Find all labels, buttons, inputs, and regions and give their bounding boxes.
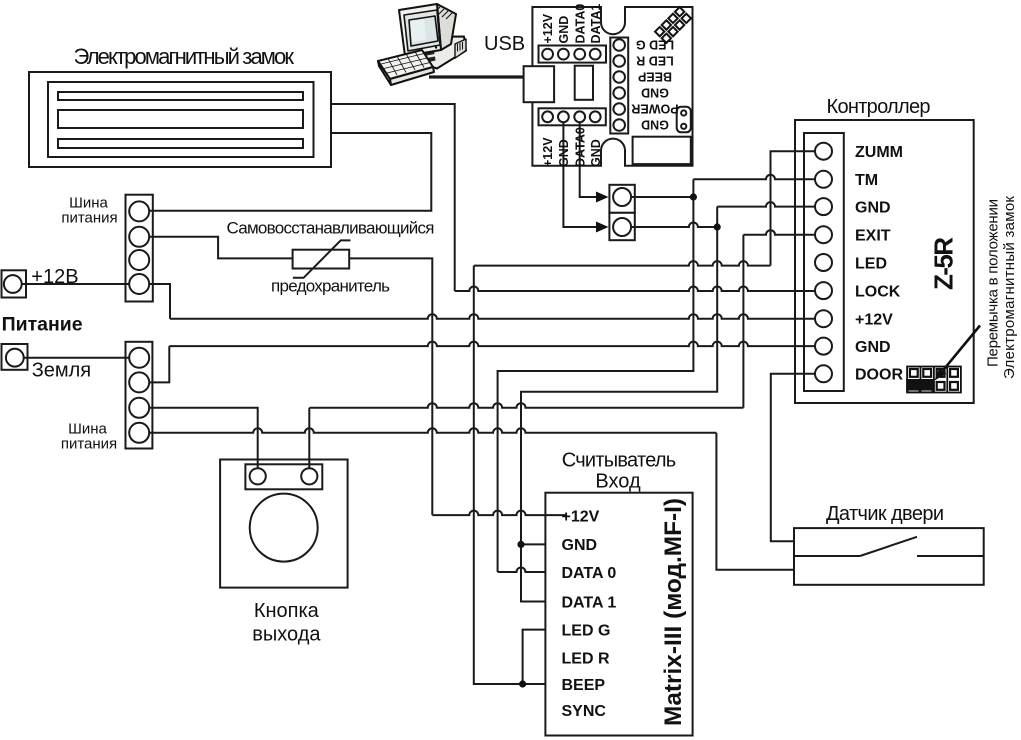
svg-text:Контроллер: Контроллер — [827, 96, 931, 118]
wire: +12V bus to controller +12V — [139, 284, 815, 319]
wire: keyboard to USB plug — [429, 75, 524, 78]
wire: exit button right to controller EXIT — [309, 230, 815, 476]
controller box Z-5R — [795, 120, 974, 403]
wire: ground terminal to bus 2 pin 1 — [16, 357, 140, 359]
fuse body — [293, 240, 351, 277]
svg-text:+12V: +12V — [855, 312, 893, 329]
svg-text:+12В: +12В — [31, 266, 78, 288]
USB connector on board — [575, 66, 593, 100]
DOOR mode jumper block — [906, 367, 961, 393]
svg-text:Считыватель: Считыватель — [562, 450, 676, 472]
exit button actuator — [250, 494, 318, 562]
svg-text:LED G: LED G — [636, 37, 674, 51]
exit button terminals — [250, 468, 318, 484]
svg-text:GND: GND — [557, 139, 571, 167]
svg-text:EXIT: EXIT — [855, 228, 891, 245]
bus 1 pins — [129, 201, 149, 294]
svg-text:предохранитель: предохранитель — [271, 276, 390, 295]
svg-text:DATA 1: DATA 1 — [562, 594, 617, 611]
svg-text:+12V: +12V — [562, 508, 600, 525]
ground terminal (Zemlya) — [2, 344, 28, 370]
controller terminal pins — [815, 143, 832, 383]
computer with monitor and keyboard — [378, 4, 466, 85]
svg-text:LED R: LED R — [636, 53, 674, 67]
svg-text:Электромагнитный замок: Электромагнитный замок — [74, 44, 295, 69]
svg-text:DATA0: DATA0 — [573, 4, 587, 44]
buzzer connector block (bottom) — [609, 213, 634, 240]
+12V terminal pin — [4, 275, 22, 293]
adapter bottom pads — [542, 111, 600, 122]
board top pad strip — [539, 46, 607, 63]
adapter column pad labels (upside down) — [631, 37, 678, 131]
adapter top pad labels — [541, 4, 603, 44]
wire: buzzer block bottom to GND net — [622, 223, 717, 227]
svg-text:BEEP: BEEP — [562, 677, 606, 694]
power bus block 1 — [126, 195, 153, 302]
electromagnetic lock body — [29, 72, 331, 167]
svg-text:LED G: LED G — [562, 622, 611, 639]
wire: controller DOOR to door sensor — [771, 374, 815, 542]
svg-text:GND: GND — [562, 537, 598, 554]
svg-text:POWER: POWER — [631, 101, 678, 115]
wire: lock bottom to power bus 1 pin 1 — [139, 133, 431, 211]
junction: reader GND tap — [517, 541, 524, 548]
wire: controller TM to reader DATA0 — [498, 175, 815, 572]
wire: GND bus to controller GND — [139, 342, 815, 383]
wire: adapter GND pad to buzzer block (arrow) — [563, 117, 608, 233]
svg-text:Перемычка в положении: Перемычка в положении — [985, 199, 1002, 367]
junction: TM / buzzer top — [690, 193, 697, 200]
svg-text:LOCK: LOCK — [855, 283, 901, 300]
adapter top pads — [542, 49, 600, 60]
reader pin labels — [562, 508, 617, 720]
svg-text:Электромагнитный замок: Электромагнитный замок — [1001, 196, 1018, 379]
svg-text:Matrix-III (мод.MF-I): Matrix-III (мод.MF-I) — [660, 498, 687, 726]
svg-text:DATA1: DATA1 — [589, 4, 603, 44]
svg-text:GND: GND — [855, 199, 891, 216]
svg-text:LED: LED — [855, 255, 887, 272]
ground terminal pin — [6, 349, 24, 367]
wire: buzzer block top to TM net — [622, 196, 693, 198]
svg-text:+12V: +12V — [541, 137, 555, 167]
svg-text:Z-5R: Z-5R — [929, 237, 959, 290]
svg-text:Питание: Питание — [2, 314, 83, 336]
wire: controller ZUMM to reader BEEP/LED G — [474, 151, 815, 684]
svg-text:GND: GND — [641, 117, 669, 131]
exit button body — [220, 460, 348, 588]
board bottom pad strip — [539, 108, 606, 125]
power bus block 2 — [126, 342, 153, 449]
wire: bus 1 pin 2 to fuse — [139, 237, 292, 259]
svg-text:GND: GND — [589, 139, 603, 167]
door sensor box — [794, 528, 984, 585]
board jumper header (rotated 45) — [655, 7, 691, 43]
svg-text:BEEP: BEEP — [638, 69, 672, 83]
svg-text:Самовосстанавливающийся: Самовосстанавливающийся — [227, 219, 435, 238]
adapter bottom pad labels — [541, 127, 603, 167]
wire: fuse output to reader +12V — [349, 258, 566, 515]
wire: bus 2 pin 3 to exit button left — [139, 408, 258, 477]
svg-text:Датчик двери: Датчик двери — [826, 503, 944, 525]
board bottom-right component — [633, 137, 691, 164]
adapter column pads — [613, 39, 625, 131]
board column pad strip — [610, 38, 628, 134]
USB plug — [524, 66, 555, 102]
svg-text:Земля: Земля — [32, 359, 91, 381]
controller pin labels — [855, 144, 903, 384]
board 2-hole jumper component — [677, 107, 691, 133]
svg-text:USB: USB — [484, 33, 525, 55]
svg-text:выхода: выхода — [252, 623, 321, 645]
wire: reader LED G tie to BEEP — [523, 630, 546, 684]
wire: adapter DATA0 pad to buzzer block (arrow) — [580, 117, 609, 203]
reader box Matrix-III — [545, 493, 692, 736]
svg-text:GND: GND — [557, 16, 571, 44]
buzzer connector block (top) — [609, 185, 634, 213]
svg-text:питания: питания — [61, 209, 117, 226]
wire: +12V terminal to bus 1 pin 4 — [12, 283, 139, 285]
+12V terminal — [2, 270, 27, 297]
junction: reader BEEP / LED G — [519, 680, 526, 687]
adapter board outline — [532, 7, 692, 166]
svg-text:Кнопка: Кнопка — [254, 600, 320, 622]
svg-text:DOOR: DOOR — [855, 367, 903, 384]
svg-text:ZUMM: ZUMM — [855, 144, 903, 161]
wire: lock top to controller LOCK — [331, 104, 815, 291]
svg-text:Вход: Вход — [595, 471, 641, 493]
door sensor switch — [794, 537, 984, 556]
wire: GND bus 2 pin 4 to door sensor — [139, 428, 794, 569]
svg-text:DATA 0: DATA 0 — [562, 565, 617, 582]
jumper pointer arrow — [935, 326, 981, 381]
svg-text:питания: питания — [61, 436, 117, 453]
svg-text:GND: GND — [855, 339, 891, 356]
svg-text:GND: GND — [641, 85, 669, 99]
wire: controller GND to reader GND/DATA1 — [521, 202, 815, 601]
svg-text:+12V: +12V — [541, 13, 555, 43]
svg-text:SYNC: SYNC — [562, 703, 607, 720]
svg-text:TM: TM — [855, 172, 878, 189]
junction: GND / buzzer bottom — [714, 223, 721, 230]
svg-text:LED R: LED R — [562, 650, 610, 667]
bus 2 pins — [129, 348, 149, 443]
controller terminal strip — [804, 133, 844, 391]
buzzer block pins — [613, 188, 631, 236]
svg-text:DATA0: DATA0 — [573, 127, 587, 167]
